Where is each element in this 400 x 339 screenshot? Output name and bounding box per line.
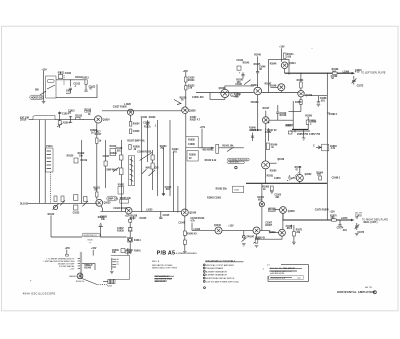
wire emitter drop to lower row [101,206,103,212]
svg-text:GANGED: GANGED [69,275,77,278]
svg-text:TO RIGHT DEFL PLATE: TO RIGHT DEFL PLATE [362,219,388,222]
svg-text:+12V R1036: +12V R1036 [125,216,138,218]
wire bus x177.9 [177,186,179,213]
svg-text:Q1024: Q1024 [103,118,111,121]
junction dots [185,110,186,111]
svg-text:Q1043: Q1043 [214,224,222,227]
item 2 [203,267,205,269]
svg-text:C1057 750: C1057 750 [309,134,321,136]
circled plus [373,291,376,294]
wire bus D [96,123,98,199]
item 4 [203,274,205,276]
cap mark x147.5 [146,123,149,124]
gnd stub x100.7 [100,227,102,238]
wire lower left row [28,202,96,204]
svg-text:R1050: R1050 [270,170,277,172]
svg-text:SEE PARTS LIST AND: SEE PARTS LIST AND [152,264,173,267]
wire bus x163.5 [163,148,165,196]
wire vertical x293.2 [292,101,294,129]
svg-text:REF 7 B: REF 7 B [152,261,160,263]
connector strip J1011 [46,148,54,172]
svg-text:+15V: +15V [41,69,47,71]
item 3 [203,271,205,273]
node bar junction y129.4 [292,128,309,130]
wiper arrow 3 [82,201,88,206]
svg-text:4 6: 4 6 [267,264,269,266]
svg-text:R1038: R1038 [188,139,195,141]
svg-text:R1020: R1020 [67,156,74,158]
svg-text:C1066 1: C1066 1 [332,178,341,180]
wire bus x152.6 [152,150,154,190]
box small at 237,66 [237,66,241,70]
ground below [270,191,274,193]
svg-text:C1062 1: C1062 1 [329,114,338,116]
component box B [110,149,116,156]
transistor Q1038 [221,89,229,97]
relay contacts [128,228,133,231]
svg-text:R1041 10k: R1041 10k [222,144,234,147]
wire bus x173.6 [173,152,175,211]
capacitor C1074 drop [339,220,341,225]
svg-text:C1040: C1040 [125,251,132,254]
wiper Q1047 [253,238,259,243]
resistor R1046b lower [183,240,186,244]
svg-text:C1021: C1021 [103,156,110,158]
resistor R1041 [216,144,219,153]
component box [121,249,125,253]
svg-text:R1031: R1031 [118,185,125,187]
wire vertical x51 [50,215,52,237]
capacitor C1033 [162,193,165,194]
resistor below Q1026 [129,122,131,127]
svg-text:R1047: R1047 [263,107,270,110]
wire QB row [101,210,126,212]
cap drop C1058 [317,96,319,102]
wire vertical x202 [201,129,203,148]
wire bottom output [283,219,352,221]
svg-text:L1069: L1069 [343,72,350,74]
resistor R1069 on wire [332,72,337,74]
resistor R1022 [54,196,57,201]
emitter blob Q1050 [268,122,269,123]
svg-text:C1051: C1051 [274,178,281,180]
wire y=85.9 feed [225,86,254,89]
resistor box 2 on bus [119,168,123,175]
component box [104,161,107,166]
tick C1062 [327,112,330,114]
svg-text:.001: .001 [286,228,291,230]
svg-text:R1063 C1063: R1063 C1063 [207,198,222,200]
wire x268.4 lower [267,75,269,93]
resistor R1024 [74,195,78,201]
svg-text:.001: .001 [320,100,325,102]
svg-text:R1042: R1042 [48,213,55,216]
svg-text:R1042 9.1k: R1042 9.1k [205,159,217,162]
resistor box on bus [119,155,123,160]
wire through [219,147,244,149]
svg-text:R1017: R1017 [95,134,102,136]
wire Q1046 label lead [270,162,277,164]
variable resistor circle [53,205,57,209]
wire x127.9 drop [127,248,129,255]
wire heavy rail [246,182,327,184]
wire x265.6 to Q1046 [265,128,267,161]
resistor on V4 [185,77,187,82]
small box left below bar [288,131,292,134]
stadium EXTERNAL HORIZONTAL row1 [228,158,250,161]
variable arrow [57,123,63,127]
wire input [29,119,33,121]
transistor Q1034 [254,87,262,95]
transistor Q1040 [181,209,188,216]
resistor R1013 [85,80,87,85]
arrow into Q3 base [174,100,181,105]
arrowhead [211,147,214,149]
component on x152.6 [151,155,154,160]
wire x268.4 top [267,128,269,141]
capacitor C1046 [256,72,259,73]
svg-text:R1031: R1031 [144,127,151,129]
node dot [83,119,84,120]
transistor Q1044 [281,62,288,69]
svg-text:SWP CAL: SWP CAL [108,198,119,201]
svg-text:TRIGGER PREAMP: TRIGGER PREAMP [206,267,224,270]
wire rail to Q1051 [261,183,263,201]
resistor R1015 [76,117,80,119]
transistor Q1054 [298,91,304,97]
transistor Q1043 [215,227,222,234]
emitter Q1026 down [130,115,132,121]
relay contact marks below QB [130,217,136,220]
svg-text:C1023: C1023 [73,213,80,215]
svg-text:.001: .001 [116,150,121,152]
svg-text:R1068 43: R1068 43 [255,236,266,239]
svg-text:HORIZONTAL DISPLAY SWITCH: HORIZONTAL DISPLAY SWITCH [206,277,235,280]
cap on x252.5 [252,133,254,141]
svg-text:C1035: C1035 [133,131,140,133]
Q1048 drop to wire [282,213,284,220]
svg-text:1.5k: 1.5k [188,88,193,90]
wire relay chain [129,217,131,251]
wire Q1054 right to bus [304,95,327,97]
wire QC down-feed [184,216,186,219]
svg-text:+15V: +15V [279,47,285,49]
resistor R1070 on wire [332,219,337,221]
svg-text:LOW VOLTAGE POWER SUPPLY A10: LOW VOLTAGE POWER SUPPLY A10 [206,280,239,283]
wire QC drop [184,219,186,251]
svg-text:.001: .001 [275,197,280,199]
svg-text:R1029: R1029 [110,153,117,155]
emitter Q1047 chain [256,234,258,238]
wire into plug [103,281,108,283]
wire arrow from stadium to switch [40,91,46,95]
ground [42,101,46,103]
svg-text:C1019: C1019 [80,160,87,162]
pin box on bus [322,144,329,151]
dashed arc CRT [287,173,299,181]
ground below bar [302,138,306,140]
wire Q1048 to Q1049 [282,213,284,229]
svg-text:L1025: L1025 [146,210,153,212]
svg-text:464 776: 464 776 [355,213,363,215]
transistor Q1045 [278,84,285,91]
wiper on x152.6 [149,170,156,176]
circled mark below [235,166,237,168]
stadium row2 [228,161,245,164]
wire right bus [326,73,328,220]
svg-text:K1025: K1025 [140,218,147,220]
svg-text:B3: B3 [117,262,119,264]
resistor R1023 [61,196,64,201]
wire mid bus C [81,140,83,203]
resistor below Q1047 [255,239,258,244]
wire branch to lower row [191,223,193,231]
svg-text:Q1046: Q1046 [277,158,285,161]
wiper TP [242,238,247,242]
component2 on x152.6 [151,163,154,169]
wire bus x157.5 [157,120,159,196]
svg-text:SWP MAG: SWP MAG [106,169,117,172]
relay coil K1014 [128,237,133,242]
ground mark [355,234,359,236]
ground QC chain [183,251,187,253]
item 5 [203,277,205,279]
svg-text:R1046 15k: R1046 15k [76,281,84,283]
svg-text:+12V: +12V [228,225,234,227]
wire top row [56,79,86,81]
wire down to gnd x303.7 [303,129,305,137]
wire Q1050 right [269,119,293,121]
transistor Q1052 [296,175,303,182]
svg-text:A SWEEP GENERATOR: A SWEEP GENERATOR [206,270,227,273]
pot wiper [227,147,234,151]
ground x293.9 [292,242,296,244]
svg-text:B SWEEP GENERATOR: B SWEEP GENERATOR [206,274,228,277]
item 1 [203,264,205,266]
switch box S1010 [46,76,56,98]
transistor Q1026 [128,109,134,115]
svg-text:R1046: R1046 [270,62,277,65]
arrowhead bottom [351,219,354,222]
stadium DELAY LINE DL1016 [82,233,100,237]
wire main row [196,92,254,94]
svg-text:464A OSCILLOSCOPE: 464A OSCILLOSCOPE [23,292,56,296]
svg-text:4-25: 4-25 [355,71,360,74]
transistor Q1025 [125,207,132,214]
svg-text:& SWEEP GENERATE: & SWEEP GENERATE [176,252,198,255]
svg-text:R1066: R1066 [269,210,276,212]
collector up to top wire [300,73,302,90]
svg-text:C1036 .001: C1036 .001 [192,97,204,99]
svg-text:R1032: R1032 [149,117,156,119]
emitter Q1050 down [265,123,267,130]
svg-text:R1034: R1034 [133,123,140,126]
svg-text:DL1015: DL1015 [20,204,29,206]
wire top output [285,72,352,74]
svg-text:NORM TRIG DLY: NORM TRIG DLY [84,235,98,237]
svg-text:C1029 R1030: C1029 R1030 [137,151,152,153]
svg-text:R1051: R1051 [267,175,274,177]
svg-text:C1064: C1064 [234,190,239,192]
svg-text:C1011: C1011 [65,73,72,75]
wire cap to Q1034 [257,68,259,87]
dashed link to plug [97,284,107,286]
wire loop below switch [56,84,97,97]
capacitor C1011 lead [63,75,65,85]
svg-text:—: — [311,48,313,50]
transistor Q1048 upper [280,207,287,214]
svg-text:R1043: R1043 [98,216,105,219]
connector pins [112,259,116,267]
variable cap C1075 [355,223,358,230]
svg-text:HORIZONTAL AMPLIFIER: HORIZONTAL AMPLIFIER [337,290,375,294]
base wire Q1052 [288,177,296,179]
wire ext input row [198,147,211,149]
resistor R1049 [266,143,269,150]
component below wire [74,205,78,210]
svg-text:Q1044: Q1044 [289,62,297,65]
transistor Q1036 [182,107,189,114]
label HORIZ DISPL inside switch [47,79,54,82]
svg-text:4.7k: 4.7k [190,219,195,222]
svg-text:R1045 43: R1045 43 [187,232,198,235]
strip pins [78,258,81,268]
svg-text:+15V: +15V [91,248,97,250]
svg-text:R1062 30k: R1062 30k [216,188,228,190]
svg-text:464 776: 464 776 [365,287,372,289]
svg-text:TD1034: TD1034 [250,101,259,104]
pot body [129,144,131,149]
transistor Q1047 [253,227,260,234]
wire bus x141.7 [141,118,143,211]
wire after delay line [55,119,95,121]
svg-text:.001: .001 [165,189,170,191]
wiper diagonal across [140,153,153,161]
emitter Q1045 to row [280,91,282,93]
svg-text:C1070 R1070: C1070 R1070 [315,209,330,211]
collector Q1052 up [299,166,301,175]
resistor R1014 [58,121,61,125]
cap ticks [290,225,292,229]
svg-text:R1015: R1015 [75,115,82,117]
resistor R1053 [300,82,303,88]
switch wiper [47,85,55,89]
wire dashed gang link [49,172,51,203]
stadium SWP CAL [107,196,117,201]
svg-text:4.7k: 4.7k [331,147,336,150]
arrowhead right [352,72,355,75]
emitter down to rail [265,169,267,183]
svg-text:C1027 R1026: C1027 R1026 [113,106,128,108]
resistor drop x293.9 [293,225,295,242]
component below rail [270,186,273,191]
wire row after stadium [100,236,126,238]
wire bus x170 [169,120,171,196]
feedback loop box top [268,60,289,75]
item 6 [203,281,205,283]
svg-text:R1049: R1049 [280,114,287,117]
wire below cap [66,89,70,93]
resistor box left of Q1048 [269,208,276,211]
svg-text:+12V: +12V [329,211,335,213]
ground Q1047 [255,245,259,247]
svg-text:R1045: R1045 [254,54,261,57]
wire row continue [262,92,298,94]
wire from Q1051 down to lower row [261,207,263,231]
svg-text:Q1036: Q1036 [189,111,197,113]
resistor R1025 [84,196,87,201]
svg-text:TP1047: TP1047 [246,235,255,238]
wire vertical supply [43,71,45,101]
wire left bus B [44,120,46,204]
svg-text:P/B A5: P/B A5 [157,250,175,256]
svg-text:100k: 100k [66,91,72,93]
contacts inside [130,159,134,181]
node junction [59,112,61,129]
wire row y237 [51,236,82,238]
wiper arrow [53,204,59,210]
wire QB to QC [132,210,181,212]
svg-text:Q1052: Q1052 [305,174,313,176]
diode CR1012 [69,116,72,123]
svg-text:C1038: C1038 [188,144,195,146]
TP drop x243.8 [243,231,245,236]
svg-text:R1055: R1055 [295,102,302,104]
svg-text:C1031: C1031 [141,117,148,119]
connector strip double line [80,252,82,278]
svg-text:P1040: P1040 [107,286,112,288]
transistor Q1050 [263,117,270,124]
svg-text:1M: 1M [94,190,97,192]
hatched plug P1040 [108,279,115,283]
transistor Q1024 [95,116,102,123]
svg-text:J1010: J1010 [20,120,27,122]
component on chain [129,219,132,222]
svg-text:VERTICAL OUTPUT AMPLIFIER: VERTICAL OUTPUT AMPLIFIER [206,264,234,267]
vertical through Q1036 [185,71,187,211]
delay line DL1010 box [33,115,55,119]
note box frame [268,265,309,282]
transistor Q1046 [262,161,270,169]
wire top right row y131 [290,130,310,132]
svg-text:HORIZ DIS: HORIZ DIS [31,97,43,99]
resistor R1044 [283,53,286,58]
wire base Q1048 [275,209,280,211]
svg-text:R1040: R1040 [84,266,91,269]
svg-text:C1045: C1045 [163,214,170,217]
resistor R1044b on QC drop [183,231,186,235]
wire strip to right [82,263,95,270]
wire vertical x308.2 [307,117,309,129]
pins of J1011 [47,151,52,169]
wire junction down [69,80,71,87]
wire left stub y111.5 [289,111,301,113]
svg-text:K1014: K1014 [134,239,141,242]
svg-text:R1024: R1024 [188,79,195,82]
transistor Q1049 [279,229,286,236]
variable arrow [244,80,251,85]
svg-text:R1013: R1013 [82,78,89,80]
svg-text:Q1048: Q1048 [288,210,296,213]
component box R1062 [233,186,244,192]
component block box [120,199,129,203]
svg-text:R1053: R1053 [297,80,304,82]
svg-text:C1036: C1036 [235,84,242,86]
ganged pot circle [77,273,83,279]
svg-text:.001: .001 [172,151,177,153]
resistor R1017 on bus D [96,138,98,143]
wire center bus x121.4 [120,140,122,211]
